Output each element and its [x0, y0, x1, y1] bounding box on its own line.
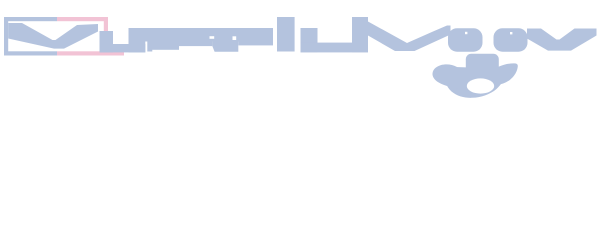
- letters FF band upper slab: [129, 28, 274, 42]
- mascot head: [466, 54, 499, 84]
- band notch top: [210, 36, 215, 39]
- o nick dot first: [465, 32, 467, 34]
- mascot right arm: [499, 63, 518, 84]
- band lower pieces: [147, 41, 273, 52]
- box border pink right segments: [57, 17, 124, 56]
- mascot left arm: [432, 64, 466, 89]
- band nick: [233, 36, 237, 40]
- mascot mouth: [467, 78, 494, 93]
- letter O second: [494, 28, 528, 52]
- letter v checkmark: [368, 22, 451, 52]
- box border blue left segments: [4, 17, 57, 56]
- letter U: [100, 28, 146, 52]
- letter L tall stem: [277, 17, 295, 52]
- tall stem: [352, 17, 368, 52]
- letter V in box: [8, 23, 98, 49]
- letter O first: [448, 28, 483, 52]
- o nick dot second: [510, 32, 512, 34]
- baseline bar: [301, 43, 369, 53]
- letter I stem: [301, 28, 318, 52]
- final letter V checkmark: [527, 29, 597, 51]
- mascot body bowl: [444, 67, 504, 98]
